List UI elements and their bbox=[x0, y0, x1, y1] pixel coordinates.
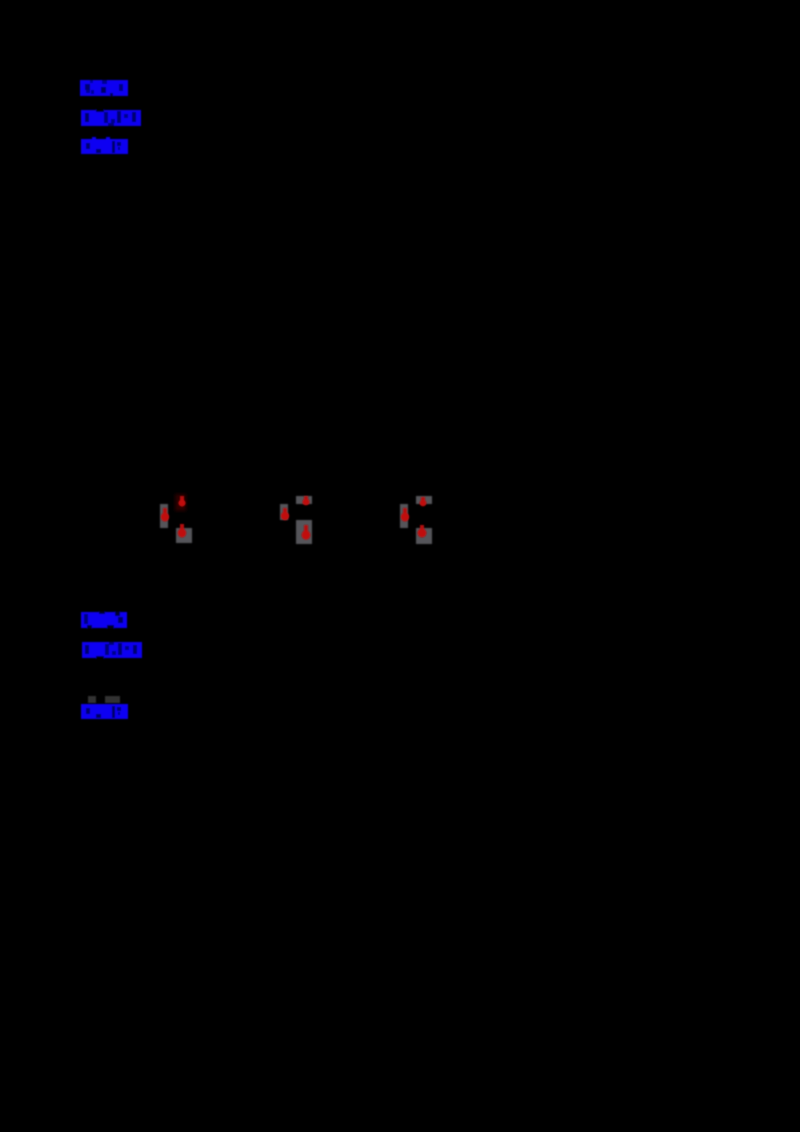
gray box left bbox=[160, 504, 168, 528]
blue label 5 (【知识点】 lower) bbox=[82, 642, 142, 662]
red numerator bbox=[302, 496, 309, 505]
red denominator bbox=[178, 524, 186, 538]
gray remnants above label 6 bbox=[88, 696, 120, 703]
gray box left bbox=[280, 504, 288, 520]
red left digit bbox=[401, 508, 409, 522]
red fraction cluster 1 bbox=[160, 494, 192, 543]
gray box left bbox=[400, 504, 408, 528]
gray box top bbox=[416, 496, 432, 504]
red fraction cluster 2 bbox=[280, 496, 312, 544]
blue label 3 (【解析】) bbox=[81, 137, 128, 154]
blue label 4 (【答案】 lower) bbox=[81, 610, 127, 630]
red left digit bbox=[161, 508, 169, 522]
maroon halo over numerator bbox=[175, 494, 186, 511]
red numerator bbox=[420, 497, 427, 506]
red fraction cluster 3 bbox=[400, 496, 432, 544]
red left digit bbox=[281, 508, 289, 520]
gray box bottom bbox=[416, 528, 432, 544]
gray box bottom bbox=[296, 520, 312, 544]
red numerator bbox=[178, 496, 185, 507]
gray box top bbox=[296, 496, 312, 504]
blue label 6 (【解析】 lower) bbox=[81, 704, 128, 719]
gray box bottom bbox=[176, 528, 192, 543]
red denominator bbox=[418, 525, 427, 537]
blue label 2 (【知识点】) bbox=[81, 106, 141, 126]
blue label 1 (【答案】 top) bbox=[80, 80, 128, 97]
red denominator bbox=[302, 525, 311, 540]
